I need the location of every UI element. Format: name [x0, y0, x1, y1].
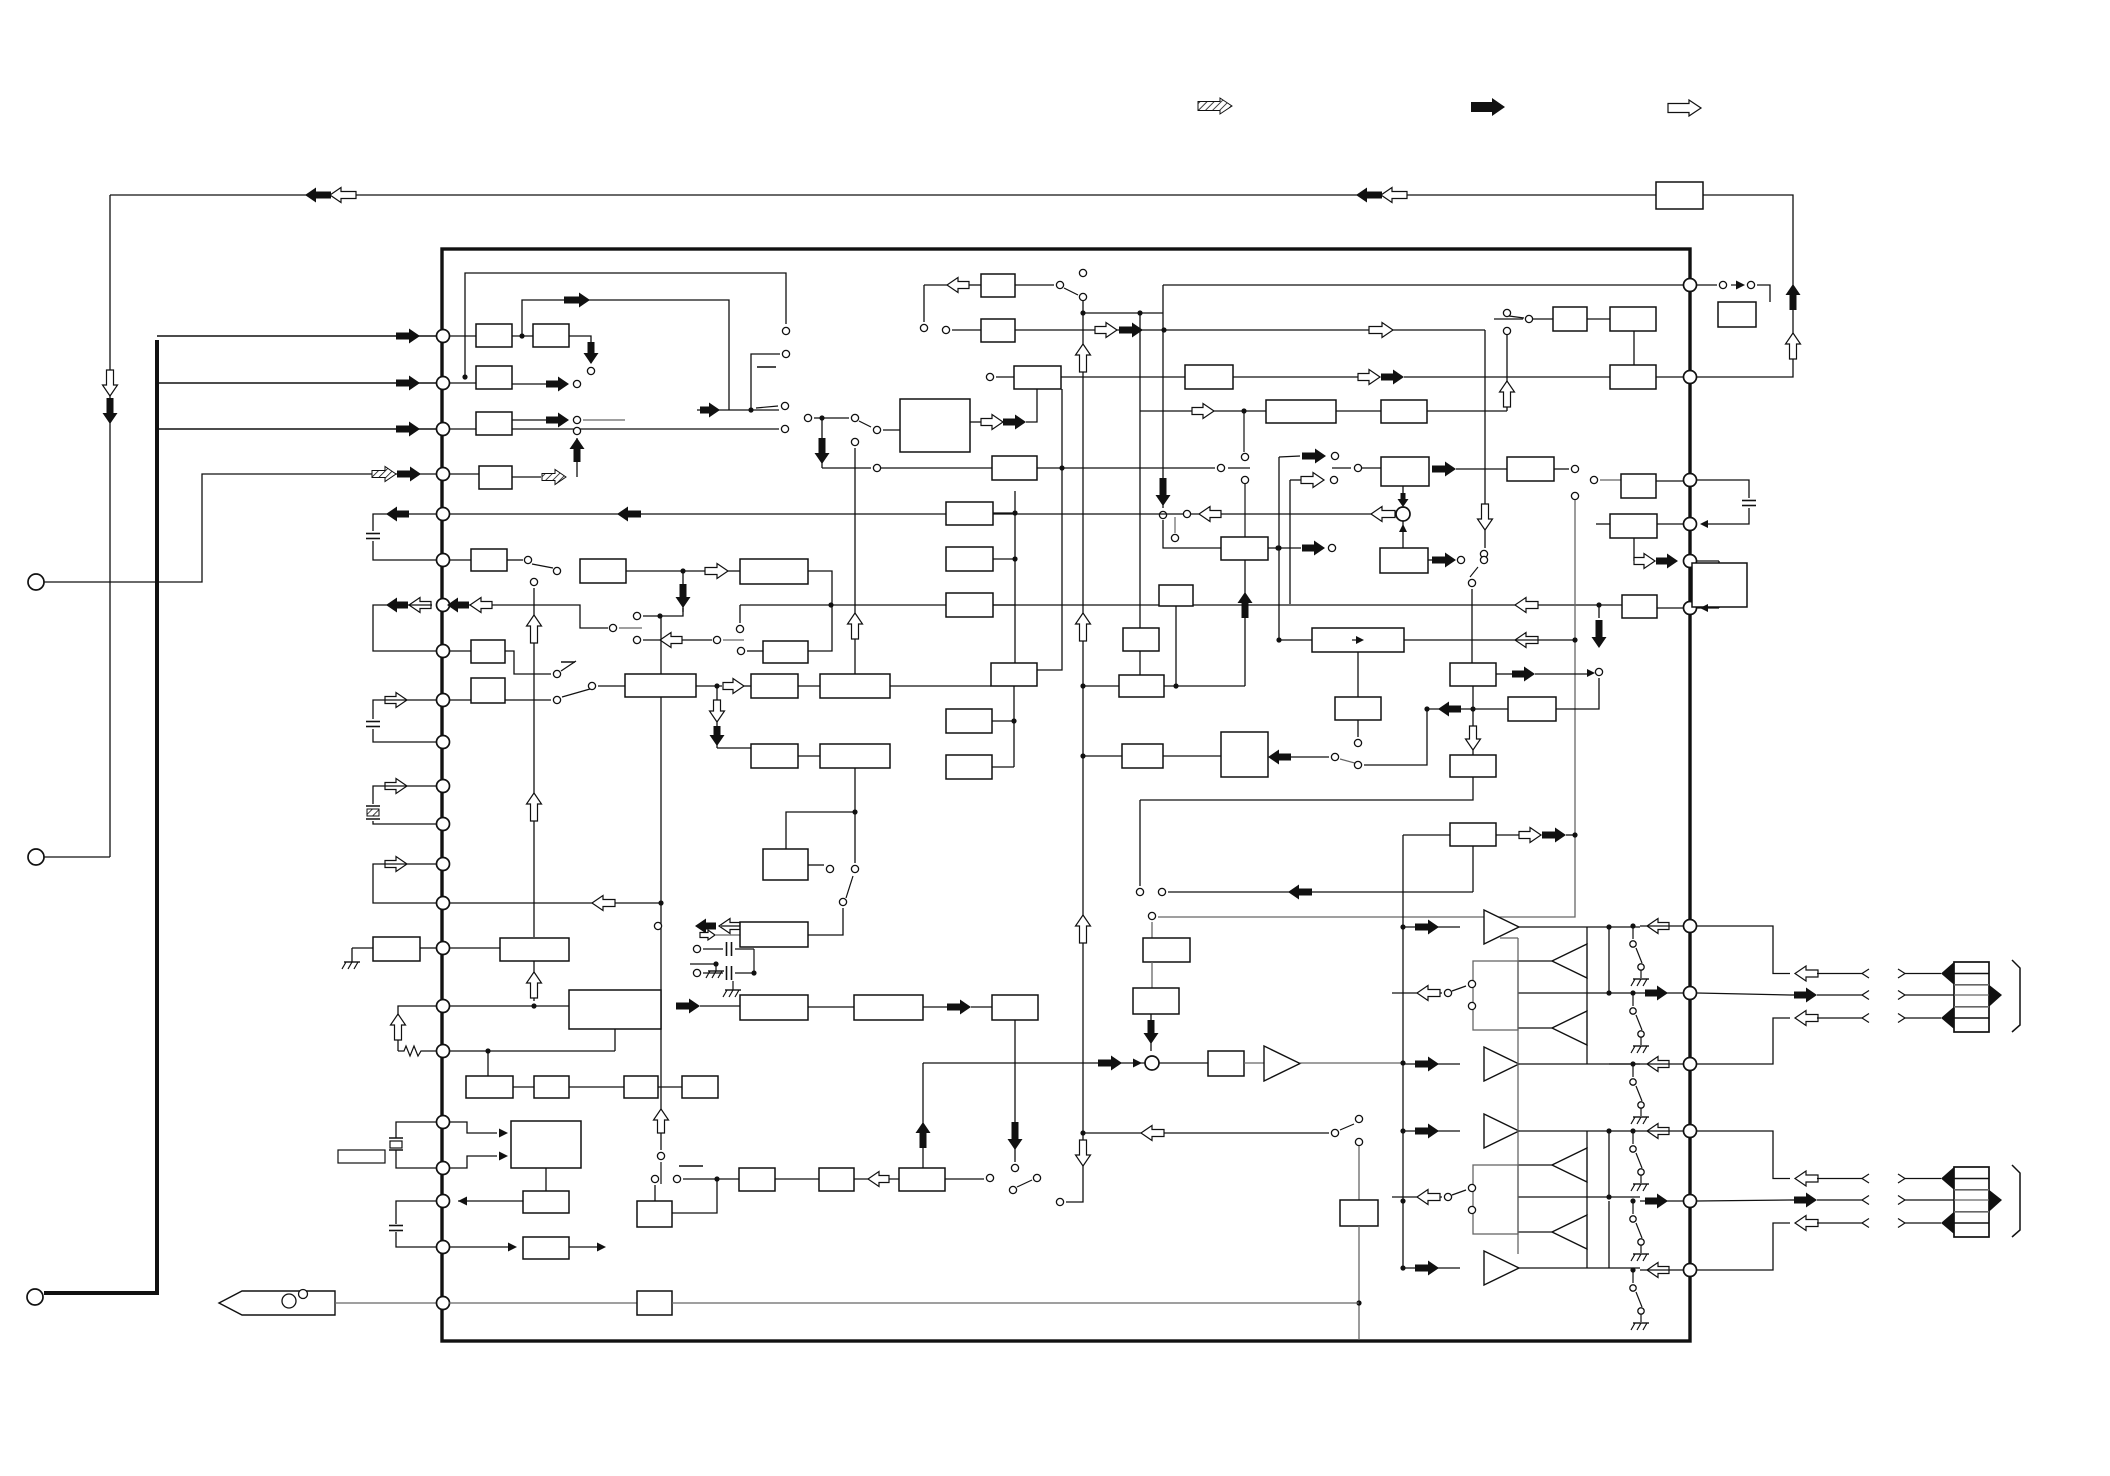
wire pin6 row: [449, 559, 471, 561]
contact c1592-480: [1590, 476, 1597, 483]
junction 831-605: [828, 602, 833, 607]
wire TB1 to corner: [1697, 195, 1793, 377]
wire X3 out: [458, 1200, 523, 1202]
wire net892: [1168, 891, 1473, 893]
junction ch bus 927: [1400, 924, 1405, 929]
arrow K1 out: [1512, 667, 1535, 682]
wire c1358 right: [1364, 709, 1427, 765]
block crystal label box: [338, 1150, 385, 1163]
pin L10: [437, 736, 450, 749]
wire net514: [449, 513, 1396, 515]
wire grey x1576: [1158, 500, 1575, 917]
wire A5 out: [512, 476, 541, 478]
contact c877: [873, 464, 880, 471]
pin L14: [437, 897, 450, 910]
arrow pinR12 row: [1647, 1263, 1669, 1278]
pin L3: [437, 423, 450, 436]
contact c785-406: [781, 402, 788, 409]
wire net478: [877, 467, 1215, 469]
terminal circle E1: [28, 849, 44, 865]
junction 855-812: [852, 809, 857, 814]
block A3: [476, 366, 512, 389]
arrow into C1: [947, 278, 969, 293]
block P1: [739, 1168, 775, 1191]
wire E6 out: [1657, 607, 1683, 609]
wire bundle x156 vertical: [44, 340, 157, 1293]
wire H2b-H1: [1139, 651, 1141, 675]
junction 1244-411: [1241, 408, 1246, 413]
block C3: [1014, 366, 1061, 389]
wire T2-T3 link CH1: [1586, 978, 1588, 1011]
contact circle n273: [782, 327, 789, 334]
wire B6 out: [696, 685, 722, 687]
tick mark 662: [561, 661, 575, 663]
contact bus top: [1079, 293, 1086, 300]
arrow into c1461: [1432, 553, 1456, 568]
wire pinR7 ext: [1697, 926, 1790, 974]
ground g754: [732, 981, 734, 990]
contact ch a CH2: [1468, 1184, 1475, 1191]
arrow A3 out: [546, 377, 569, 392]
wire c628 stub: [619, 627, 642, 629]
arrow 482: [1301, 473, 1324, 488]
wire ar-M5: [971, 1006, 992, 1008]
wire C3-C4: [1061, 376, 1185, 378]
wire x1245: [1244, 560, 1246, 686]
contact c1358-765: [1354, 761, 1361, 768]
block B6: [625, 674, 696, 697]
junction sw 1064: [1630, 1061, 1635, 1066]
wire pin1 spur: [157, 335, 443, 337]
wire pin16 row: [449, 1005, 569, 1007]
arrow filled into pin4: [397, 467, 421, 482]
wire net377 right: [1404, 376, 1610, 378]
wire net605 end: [1598, 605, 1600, 618]
wire inner top net: [465, 273, 786, 377]
block R2 (outside): [1692, 563, 1747, 607]
wire J1 up: [1357, 652, 1359, 697]
block M2 (wide): [569, 990, 661, 1029]
block N4: [682, 1076, 718, 1098]
pin L22: [437, 1297, 450, 1310]
contact c869b: [851, 865, 858, 872]
switch blade 869: [846, 876, 853, 898]
wire S1 up: [1402, 486, 1404, 493]
contact c686: [588, 682, 595, 689]
buffer amp CH2 T2 (left): [1552, 1148, 1587, 1182]
junction 716-964: [713, 961, 718, 966]
contact c697-973: [693, 969, 700, 976]
wire pin16 loop down: [398, 1006, 436, 1051]
block C6: [1553, 307, 1587, 331]
wire net468 stub: [1332, 467, 1351, 469]
block K3: [1450, 823, 1496, 846]
block G1: [946, 502, 993, 525]
arrow net330 c: [1369, 323, 1393, 338]
contact below A2: [587, 367, 594, 374]
summing node S2: [1145, 1056, 1159, 1070]
contact c869a: [826, 865, 833, 872]
wire pin2 spur: [157, 382, 443, 384]
wire bus1083 end: [1066, 1196, 1083, 1202]
wire x488: [487, 1051, 489, 1076]
wire M5 down: [1014, 1020, 1016, 1162]
wire N2-N3: [569, 1086, 624, 1088]
contact ch c CH2: [1444, 1193, 1451, 1200]
block K1: [1450, 663, 1496, 686]
wire 822-877: [822, 467, 871, 469]
connector block CN1: [1954, 962, 1989, 1032]
wire pin9 row: [449, 699, 471, 701]
contact c655-1179: [651, 1175, 658, 1182]
wire c1529-C6: [1533, 318, 1553, 320]
arrowhead r285: [1736, 281, 1745, 290]
contact r285a: [1719, 281, 1726, 288]
contact c640b: [713, 636, 720, 643]
crystal X1: [389, 1137, 403, 1139]
legend hatched arrow: [1198, 98, 1232, 114]
wire A4 out: [512, 419, 546, 421]
wire ch in row2 CH2: [1403, 1267, 1460, 1269]
wire pinR12 row: [1640, 1269, 1684, 1271]
arrow up x577: [570, 438, 585, 462]
junction 822-418: [819, 415, 824, 420]
junction ch 1609a CH2: [1606, 1128, 1611, 1133]
switch blade 1184: [1017, 1180, 1032, 1187]
IC boundary: [442, 249, 1690, 1341]
block A5: [479, 466, 512, 489]
contact ch c CH1: [1444, 989, 1451, 996]
cap h1: [703, 948, 723, 950]
contact c1060: [1056, 281, 1063, 288]
switch-ground chain 1201: [1632, 1201, 1634, 1214]
contact c785-429: [781, 425, 788, 432]
arrow out pin7 filled: [386, 598, 408, 613]
switch blade 468: [1228, 467, 1250, 469]
pin R5: [1684, 555, 1697, 568]
connector block CN2: [1954, 1167, 1989, 1237]
block P2: [819, 1168, 854, 1191]
terminal circle E3: [27, 1289, 43, 1305]
junction 1427-709: [1424, 706, 1429, 711]
arrow net377 b: [1381, 370, 1404, 385]
contact A4 out: [573, 416, 580, 423]
block N2: [534, 1076, 569, 1098]
junction ch bus 1201: [1400, 1198, 1405, 1203]
wire S2 out: [1159, 1062, 1208, 1064]
block B7: [751, 674, 798, 698]
arrow net330 b: [1119, 323, 1143, 338]
junction 1576-640: [1572, 637, 1577, 642]
arrow net1133: [1141, 1126, 1164, 1141]
arrow on top net right (filled): [1356, 188, 1382, 203]
wire M2 down: [614, 1029, 616, 1051]
wire G3 tap: [993, 604, 1015, 606]
junction sw 1270: [1630, 1267, 1635, 1272]
arrow up bus1083 a: [1076, 344, 1091, 372]
arrow net605 right: [1515, 598, 1538, 613]
block G2: [946, 547, 993, 571]
block ext ground box: [373, 937, 420, 961]
arrow E0 out b: [1003, 415, 1026, 430]
block B8: [820, 674, 890, 698]
block A4: [476, 412, 512, 435]
wire H2 down: [1175, 606, 1177, 686]
wire x1289: [1289, 480, 1291, 604]
wire x1152a: [1151, 922, 1153, 938]
arrow up x534b: [527, 972, 542, 998]
wire R2 top stub: [1697, 560, 1719, 562]
wire 482 stub: [1290, 479, 1301, 481]
arrow pinR9 row: [1647, 1057, 1669, 1072]
wire x1140: [1139, 800, 1141, 886]
wire E2 to x202: [44, 474, 436, 582]
wire M2-M3: [700, 1005, 740, 1007]
wire C9 out: [1427, 410, 1507, 412]
wire E0 out corner: [1026, 389, 1037, 422]
contact c808-418: [804, 414, 811, 421]
arrow down bus1162: [1156, 478, 1171, 506]
wire G1 tap: [993, 512, 1015, 514]
block B11: [763, 849, 808, 880]
arrow A5 hatched: [542, 470, 566, 485]
pin L13: [437, 858, 450, 871]
contact c1162-892: [1158, 888, 1165, 895]
wire B1 out: [507, 559, 523, 561]
junction bus 314: [1080, 310, 1085, 315]
wire E in: [883, 429, 900, 431]
contact c1175-538: [1171, 534, 1178, 541]
switch blade 410: [756, 406, 778, 408]
wire B9-B10: [798, 755, 820, 757]
wire ar-c1335: [1291, 756, 1329, 758]
wire caps join: [753, 949, 755, 973]
wire row1179 in: [683, 1178, 739, 1180]
arrow K3 out b: [1542, 828, 1566, 843]
pin R12: [1684, 1264, 1697, 1277]
wire pin9-pin10 loop with cap: [373, 700, 436, 719]
wire net1133: [1083, 1132, 1329, 1134]
arrow x717 filled: [710, 726, 725, 746]
wire T4 out CH2: [1519, 1267, 1640, 1269]
junction 488-1051: [485, 1048, 490, 1053]
arrow into S1: [1398, 493, 1409, 507]
block G5: [946, 709, 992, 733]
wire H1 out: [1164, 685, 1245, 687]
arrow up (hollow) on x1793: [1786, 333, 1801, 359]
junction ch 1609a CH1: [1606, 924, 1611, 929]
contact c1575-496: [1571, 492, 1578, 499]
wire ch vert x1609 CH2b: [1608, 1201, 1610, 1268]
block C9: [1381, 400, 1427, 423]
switch blade 757: [1340, 759, 1362, 765]
bracket CN1: [2012, 960, 2020, 1032]
pin R11: [1684, 1195, 1697, 1208]
wire A2 out: [569, 336, 591, 363]
arrow M2 out: [676, 999, 700, 1014]
wire ch in row2 CH1: [1403, 1063, 1460, 1065]
wire x683 down: [682, 571, 684, 612]
pin R4: [1684, 518, 1697, 531]
block J2: [1508, 697, 1556, 721]
block B5: [471, 678, 505, 703]
contact c1015-1168: [1011, 1164, 1018, 1171]
contact c1335-456: [1331, 452, 1338, 459]
block G4: [991, 663, 1037, 686]
arrow on top net left (hollow): [330, 188, 356, 203]
wire ch bus x1403: [1402, 835, 1404, 1268]
wire K1 down: [1472, 686, 1474, 755]
wire c640b stub: [723, 639, 744, 641]
pin L18: [437, 1116, 450, 1129]
wire x1152c: [1150, 1014, 1152, 1051]
contact c855-442: [851, 438, 858, 445]
wire G6 link: [992, 766, 1014, 768]
wire T3 out CH2: [1518, 1231, 1552, 1233]
block B12: [763, 641, 808, 663]
arrowhead pin524: [1700, 520, 1708, 528]
wire crystal to pin19: [396, 1150, 436, 1168]
arrow pin7 in a: [447, 598, 469, 613]
arrow up hollow x398: [391, 1014, 406, 1040]
wire B8 out: [890, 685, 991, 687]
wire net709: [1427, 708, 1508, 710]
junction A1-A2: [519, 333, 524, 338]
block C4: [1185, 365, 1233, 389]
arrow down x683: [676, 584, 691, 608]
block Q4: [1340, 1200, 1378, 1226]
contact c1013-1190: [1009, 1186, 1016, 1193]
wire pin2 row: [449, 382, 476, 384]
block P3: [899, 1168, 945, 1191]
arrow up x1507: [1500, 381, 1515, 407]
buffer T0: [1264, 1046, 1300, 1081]
arrow down x822: [815, 438, 830, 464]
arrow net640: [660, 633, 682, 648]
junction 1279-640: [1276, 637, 1281, 642]
wire C1 out: [1015, 284, 1054, 286]
arrow net892: [1288, 885, 1312, 900]
block D2: [1507, 457, 1554, 481]
junction g2: [1012, 556, 1017, 561]
wire ch in row1 CH1: [1403, 926, 1460, 928]
block H2: [1159, 585, 1193, 606]
switch blade 1133: [1340, 1124, 1354, 1130]
arrow to B3: [705, 564, 728, 579]
block Q1: [1143, 938, 1190, 962]
wire H4 in: [1083, 755, 1122, 757]
junction 1061-468: [1059, 465, 1064, 470]
wire pin480 cap loop: [1697, 480, 1749, 498]
arrow up x661: [654, 1109, 669, 1133]
wire pin20 to cap: [396, 1201, 436, 1224]
conn row A CN1: [1795, 966, 1818, 981]
contact c1472-583: [1468, 579, 1475, 586]
wire H3 out: [1268, 547, 1301, 549]
wire P3 out: [945, 1178, 984, 1180]
contact c1335-757: [1331, 753, 1338, 760]
junction 1279-548: [1276, 545, 1281, 550]
wire x717 down: [716, 686, 718, 748]
wire net330 row: [952, 329, 1485, 331]
wire pin1 row: [449, 335, 476, 337]
wire x1245 top: [1243, 411, 1245, 452]
junction sw 993: [1630, 990, 1635, 995]
wire G4 right: [1037, 389, 1062, 670]
wire 926: [721, 925, 740, 927]
block M1: [500, 938, 569, 961]
wire T4out-pin9: [1609, 1063, 1640, 1065]
block X3: [523, 1191, 569, 1213]
junction 754-973: [751, 970, 756, 975]
pin L16: [437, 1000, 450, 1013]
pin L5: [437, 508, 450, 521]
arrow E5 b: [1656, 554, 1678, 569]
block R1 (outside): [1718, 302, 1756, 327]
buffer amp CH1 T1: [1484, 910, 1519, 944]
wire pinR11 row: [1640, 1200, 1684, 1202]
wire bus1162: [1162, 313, 1164, 508]
contact c1335-480: [1330, 476, 1337, 483]
arrow on top net right (hollow): [1381, 188, 1407, 203]
wire H1 in: [1083, 685, 1119, 687]
junction 1576-835: [1572, 832, 1577, 837]
wire pin11-pin12 loop with crystal: [373, 786, 436, 804]
block D1: [1381, 457, 1429, 486]
pin L20: [437, 1195, 450, 1208]
junction ch bus 1063: [1400, 1060, 1405, 1065]
conn row C CN1: [1795, 1011, 1818, 1026]
legend filled arrow: [1471, 98, 1505, 116]
block C5: [1610, 365, 1656, 389]
arrow up (filled) on x1793: [1786, 284, 1801, 310]
block TB1 (top right): [1656, 182, 1703, 209]
wire ar-B7: [744, 685, 751, 687]
junction bus686: [1080, 683, 1085, 688]
wire arrow-B3: [728, 570, 740, 572]
junction bus1133: [1080, 1130, 1085, 1135]
block H2b: [1123, 628, 1159, 651]
arrow up x1245: [1238, 592, 1253, 618]
wire T2 stub CH1: [1586, 927, 1588, 944]
wire ext box to pin15: [420, 947, 436, 949]
pin L15: [437, 942, 450, 955]
buffer amp CH1 T3 (left): [1552, 1011, 1587, 1045]
wire M3-M4: [808, 1006, 854, 1008]
contact c1507-313: [1503, 309, 1510, 316]
arrow net514 c: [1371, 507, 1395, 522]
contact c677-1179: [673, 1175, 680, 1182]
wire E6 in: [1599, 604, 1622, 606]
arrow into pin9 hollow: [385, 693, 407, 708]
wire R2 bot stub: [1697, 607, 1719, 609]
wire ch out row CH1: [1392, 992, 1442, 994]
arrow P2-P3: [868, 1172, 889, 1187]
switch blade 285: [1064, 288, 1078, 295]
wire ch vert x1518: [1517, 938, 1519, 1254]
arrow net903: [592, 896, 615, 911]
contact b3: [553, 567, 560, 574]
wire B5 out: [505, 699, 551, 701]
wire X2 down: [545, 1168, 547, 1191]
wire net285 long: [1163, 284, 1684, 286]
block D3: [1621, 474, 1656, 498]
wire K3 out: [1496, 834, 1519, 836]
contact c990-377: [986, 373, 993, 380]
wire row418: [814, 417, 849, 419]
block H5: [1221, 732, 1268, 777]
wire pinR9 ext: [1697, 1018, 1790, 1064]
